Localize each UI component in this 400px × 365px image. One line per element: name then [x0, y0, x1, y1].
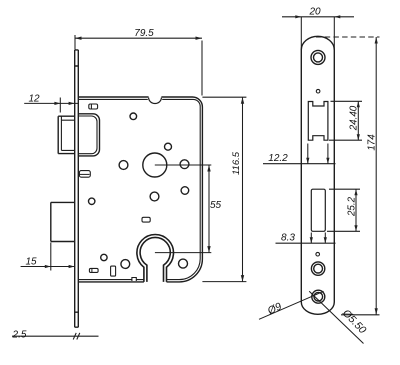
svg-text:24.40: 24.40 [349, 105, 360, 131]
svg-text:79.5: 79.5 [134, 28, 154, 39]
svg-text:12: 12 [28, 94, 40, 105]
svg-text:20: 20 [308, 7, 321, 18]
svg-text:15: 15 [25, 256, 37, 267]
svg-text:55: 55 [210, 200, 222, 211]
svg-text:25.2: 25.2 [346, 196, 357, 217]
svg-text:12.2: 12.2 [268, 153, 288, 164]
svg-text:174: 174 [366, 134, 377, 151]
svg-text:Ø5.50: Ø5.50 [339, 307, 368, 337]
svg-text:116.5: 116.5 [231, 151, 242, 175]
svg-text:2.5: 2.5 [12, 330, 27, 341]
svg-text:8.3: 8.3 [281, 233, 295, 244]
